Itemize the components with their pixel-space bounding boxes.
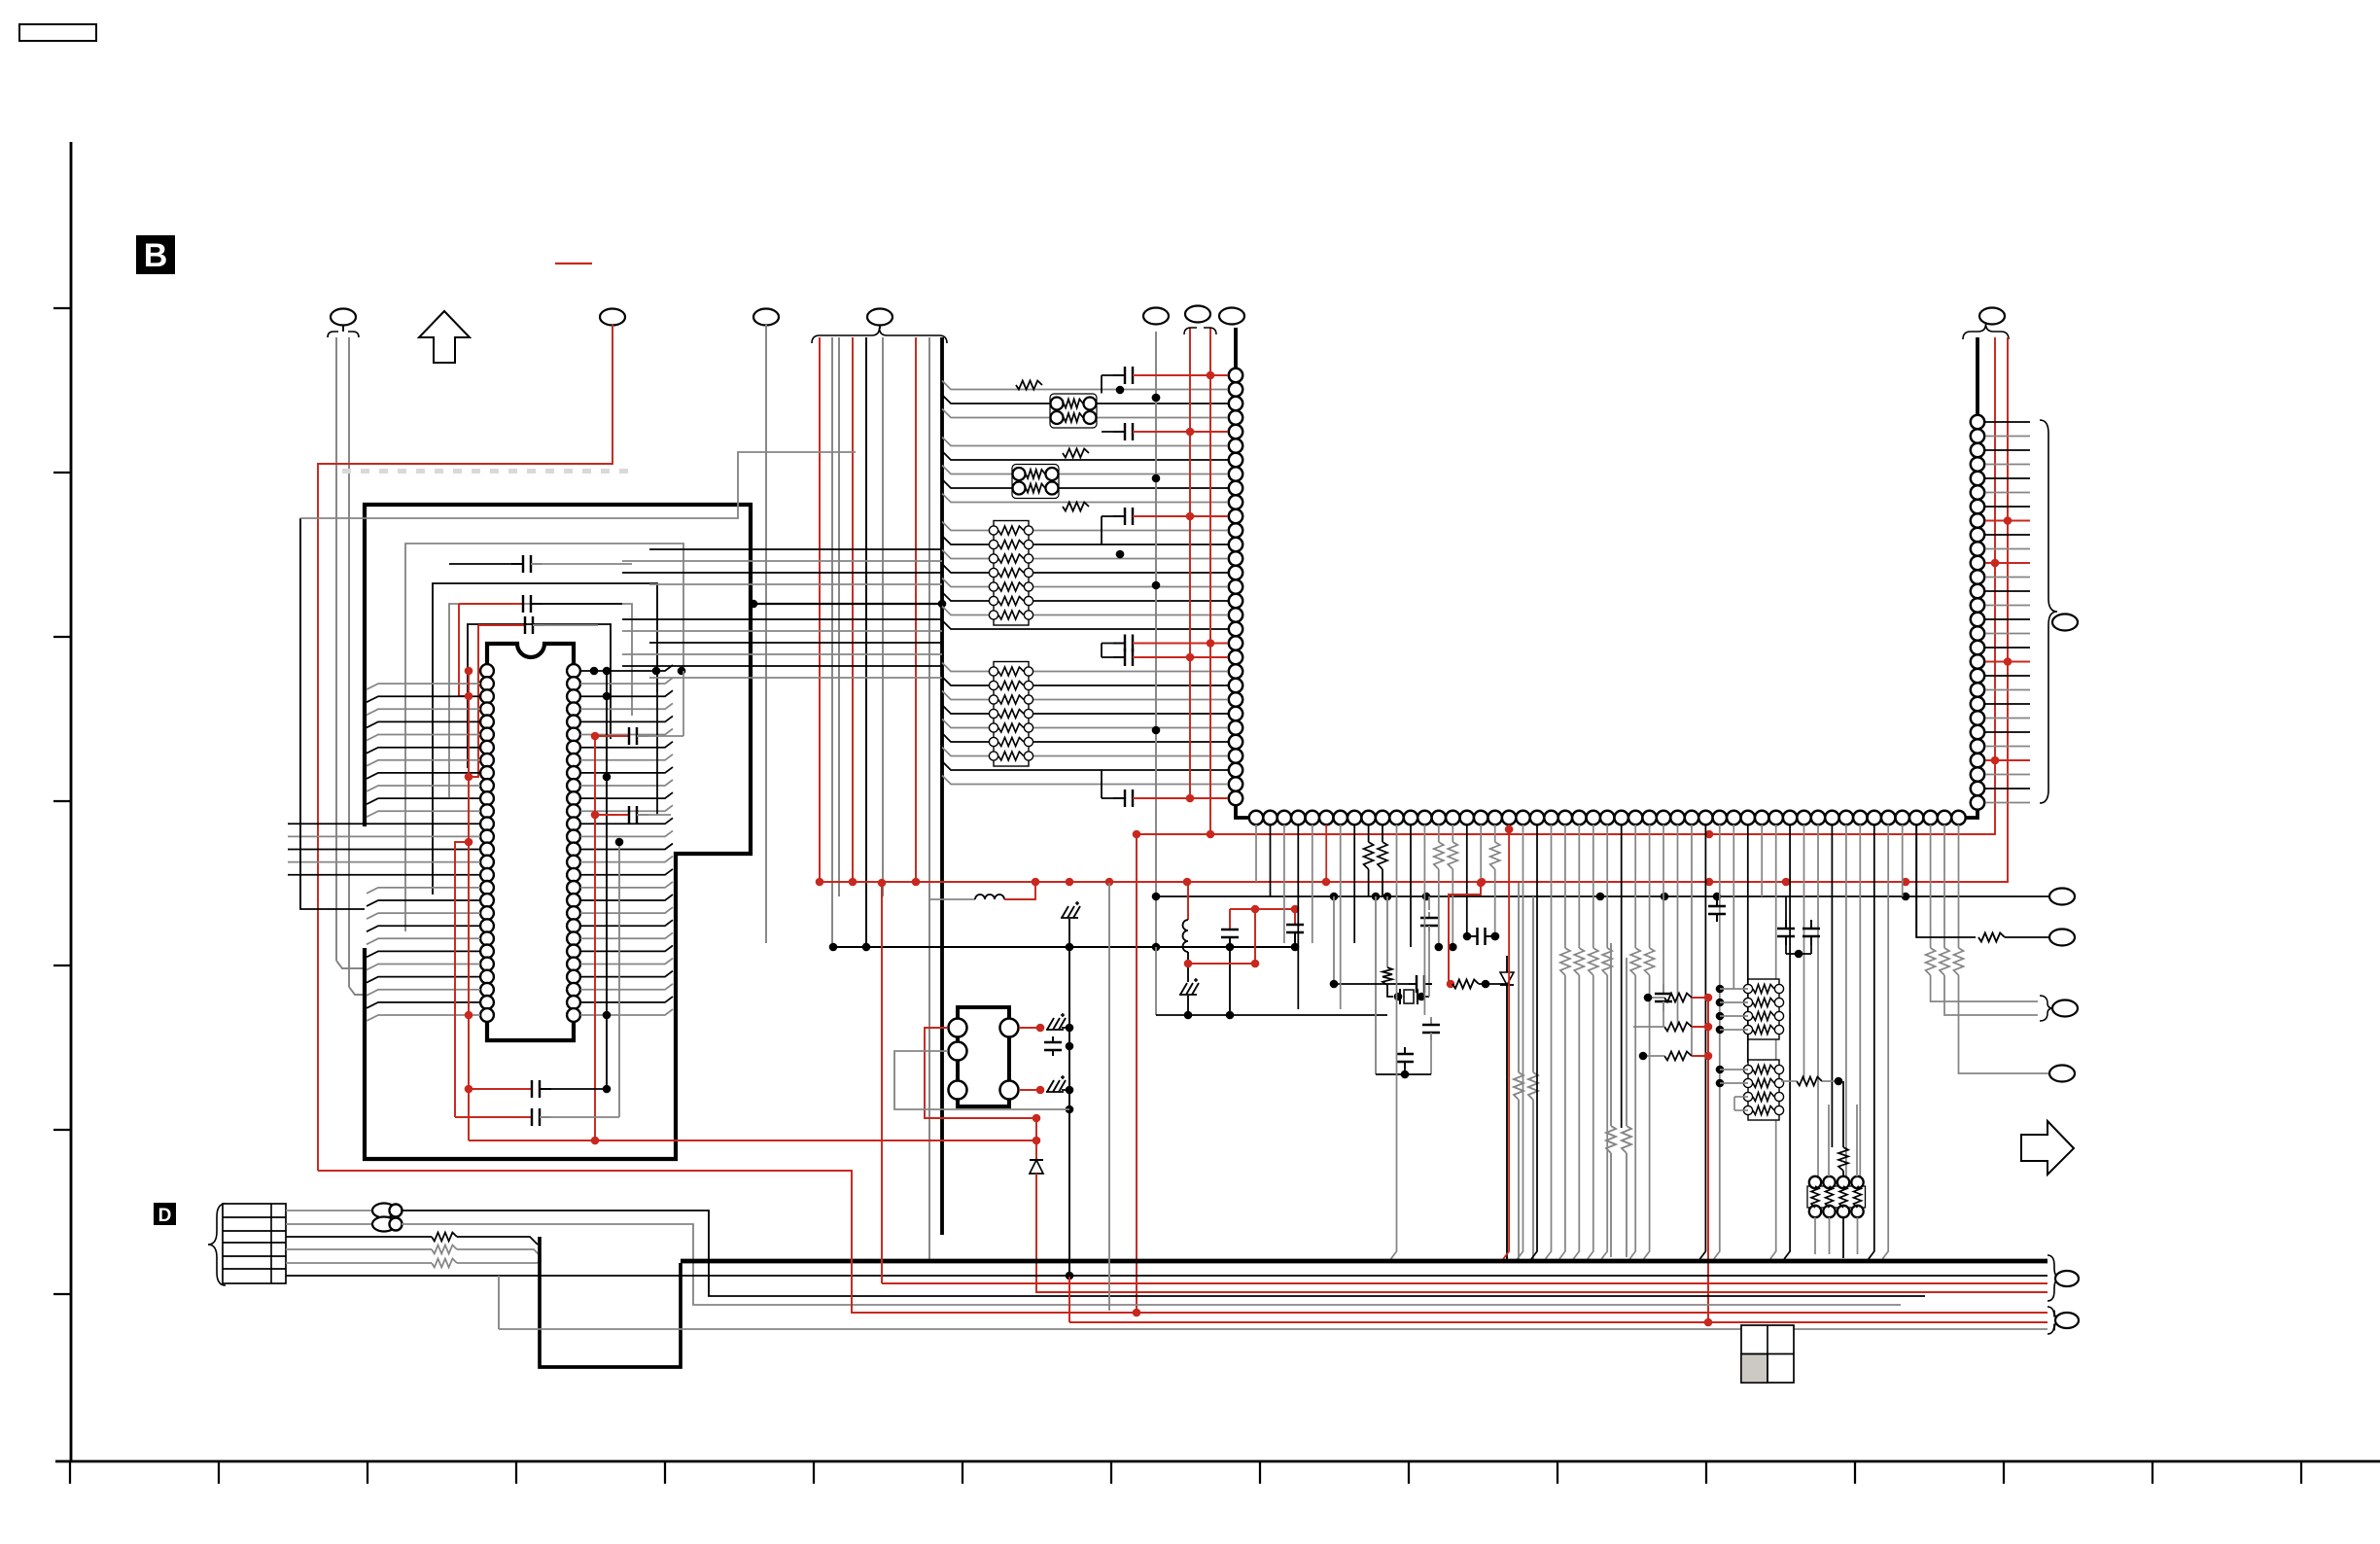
capacitor C-top3 (513, 624, 525, 626)
connector ellipse at brace (2052, 614, 2078, 631)
thick bottom bus (681, 1259, 2047, 1264)
pin circles bottom row of IC block (1249, 811, 1263, 825)
red rail right of U1 (594, 736, 596, 1140)
ground G2 (1180, 983, 1187, 995)
faint redacted text band (342, 469, 351, 474)
gray rail right of U1 (618, 842, 620, 1089)
red branch left (455, 842, 469, 1117)
U2 right top lead (1019, 1027, 1040, 1029)
connector P3 (753, 309, 779, 326)
capacitor C-m5 (1716, 898, 1718, 906)
red rail A (1189, 328, 1191, 796)
red wire loop left b (471, 625, 478, 777)
connector ellipse out2 (2049, 930, 2075, 946)
red net mid (1230, 908, 1295, 910)
black bus y922 (1156, 895, 2049, 897)
connector ellipse P7 (1979, 308, 2005, 325)
wire bundle P4 drops (819, 337, 821, 883)
wire P3 down (765, 332, 767, 943)
wire P1 pin2 down (348, 337, 350, 987)
oscillator IC U2 body (958, 1007, 1009, 1106)
inductor L1 (929, 898, 975, 900)
U2 pin circles (949, 1019, 967, 1037)
left axis tick marks (53, 307, 71, 309)
U2 gray loop (894, 1051, 1069, 1109)
black rail right of U1 (606, 671, 608, 1015)
wire P1 pin1 down (335, 337, 337, 961)
series RC net (1333, 896, 1335, 984)
DIP IC U1 body (487, 644, 574, 1040)
capacitor C-bot2 (520, 1116, 532, 1118)
section label D (154, 1203, 176, 1225)
connector ellipse out3 (2052, 1000, 2078, 1017)
wires above RN5 (1828, 1105, 1830, 1176)
pin circles right column of IC block (1971, 415, 1984, 429)
resistor R-out2 (1978, 933, 2005, 942)
dots U1 pin1 row (590, 667, 599, 676)
capacitor C-m6b (1810, 920, 1812, 929)
bus line red 1320 (882, 1282, 2047, 1284)
wire to out2 (1916, 825, 1976, 937)
wire P2 red down-left (318, 332, 612, 1171)
capacitor C-right2 (617, 814, 629, 816)
IC block outline heavy (365, 505, 751, 1159)
gray rail from P3 (1155, 332, 1157, 947)
red bus y907 (820, 881, 2009, 883)
diode D2 (1506, 956, 1508, 972)
heavy corner bottom of column (1236, 805, 1249, 818)
heavy corner bottom right column (1966, 810, 1978, 819)
resistor pair RP1 (1050, 394, 1097, 428)
wire loop L4 (468, 624, 611, 768)
D wire 3 (286, 1236, 432, 1238)
page ruler left axis (70, 142, 73, 1461)
D wire 6 bus (286, 1275, 2047, 1277)
RN5 wires (1814, 1217, 1816, 1254)
bracket above red rails (1184, 328, 1216, 334)
resistor R-mid (1797, 1077, 1822, 1086)
junction dots wire rows (1116, 386, 1125, 395)
capacitor C-top1 (511, 563, 523, 565)
connector column stem heavy (1234, 328, 1238, 368)
connector ellipse P6 (1185, 306, 1210, 323)
wires feeder fan to column (942, 381, 1228, 390)
resistor network RN3 (1748, 979, 1779, 1039)
bottom ruler axis (55, 1460, 2380, 1463)
DIP U1 left pin circles (480, 664, 494, 678)
wire from outer left 1 (300, 518, 365, 909)
wires right of U1 pins (580, 665, 673, 671)
resistor R-b (1063, 449, 1089, 458)
resistor pair RPb (1606, 1126, 1616, 1153)
pin circles left column of IC block (1229, 368, 1242, 382)
bracket bus right 2 (2047, 1307, 2061, 1334)
red rail cluster (1707, 998, 1709, 1322)
resistor R-c (1063, 503, 1089, 511)
resistor network RN1 (994, 521, 1029, 626)
wire loop L2 (433, 583, 657, 895)
red rail B (1209, 328, 1211, 834)
bus line red 1350 (318, 1171, 2047, 1313)
connector P4 with bracket (867, 309, 892, 326)
gray rail x1141 (1108, 883, 1110, 1311)
connector ellipse out4 (2049, 1066, 2075, 1082)
D wire 2 (286, 1223, 371, 1225)
resistor network RN5 (1807, 1186, 1866, 1208)
red L-net to bottom (1136, 834, 1137, 1313)
wire loop L1 (405, 544, 683, 931)
red net bottom of block (469, 1140, 1036, 1141)
connector ellipse above column (1219, 308, 1244, 325)
wires block to feeder bus (649, 548, 942, 550)
U2 right bottom lead (1019, 1089, 1040, 1091)
connector P2 (600, 309, 625, 326)
up arrow flow symbol (419, 311, 470, 363)
red rail right column A (1994, 337, 1996, 835)
svg-text:D: D (158, 1206, 172, 1226)
loop around L2 (1155, 947, 1157, 1015)
wire loop L3 (449, 604, 632, 797)
flow arrow right (2021, 1121, 2074, 1175)
ground G3 (1047, 1018, 1054, 1030)
resistor network RN2 (994, 662, 1029, 767)
curly brace right column (2040, 420, 2057, 803)
U2 red loop (925, 1028, 1036, 1118)
connector ellipse P5 (1143, 308, 1169, 325)
wire to out4 (1959, 975, 2050, 1073)
heavy bus vertical feeder (940, 337, 944, 1235)
red rail right column B (2007, 337, 2009, 882)
capacitor C-bot1 (520, 1088, 532, 1090)
connector ellipse bus2 (2055, 1313, 2079, 1328)
bracket bus right 1 (2047, 1255, 2061, 1301)
connector D block (223, 1204, 286, 1283)
capacitor C-top2 (511, 603, 523, 605)
checker legend box (1741, 1325, 1794, 1383)
resistor pair RP2 (1012, 465, 1059, 499)
connector ellipse bus1 (2055, 1271, 2079, 1286)
red step net (1449, 883, 1481, 984)
black bus y974 (833, 946, 1295, 948)
crystal X1 net (1375, 896, 1377, 1074)
svg-text:B: B (144, 237, 168, 274)
capacitor C-right1 (617, 735, 629, 737)
stub wires right column (1985, 421, 2030, 423)
heavy stem top right column (1976, 337, 1979, 415)
black rail x1100 (1068, 947, 1070, 1276)
connector P1 top-left (331, 309, 356, 326)
capacitor C-m1 (1229, 920, 1231, 930)
wires to bracket out3 (1931, 975, 2038, 1001)
bottom axis tick marks (69, 1461, 71, 1484)
capacitor C-row16 (1469, 935, 1478, 937)
resistor R-a (1016, 381, 1042, 390)
inductor L2 (1187, 883, 1189, 920)
capacitor C-u2 (1052, 1036, 1054, 1042)
resistor trio red-fed (1664, 994, 1692, 1002)
bracket out3 (2040, 996, 2053, 1021)
section label B (136, 235, 175, 274)
red wire loop left a (459, 604, 471, 696)
wire drops from bottom pin row (1255, 825, 1257, 882)
D wire 1 (286, 1210, 371, 1211)
cap row stubs (1101, 375, 1102, 394)
bus line 8 gray (499, 1328, 2047, 1330)
capacitor C-m2 (1294, 915, 1296, 925)
brace D connector (208, 1204, 226, 1285)
heavy route U (540, 1237, 681, 1367)
connector ellipse out1 (2049, 889, 2075, 905)
wires left fan to U1 pins (367, 684, 480, 689)
DIP U1 right pin circles (567, 664, 580, 678)
bus line red 1329 (1040, 1291, 2047, 1293)
title box top-left (19, 24, 96, 41)
D wire 5 (286, 1262, 432, 1264)
red pin rail U1 left (468, 669, 470, 1140)
capacitor rows into column (1113, 374, 1125, 376)
wire y621 junction (753, 603, 942, 605)
resistor pair RPa (1514, 1072, 1523, 1100)
D wire 4 (286, 1248, 432, 1250)
ground G4 (1047, 1080, 1054, 1092)
ground G1 (1062, 906, 1068, 918)
wire y533 long (300, 452, 856, 518)
red line under pin row (1137, 833, 1995, 835)
bus line red 1360 (1069, 1321, 2047, 1323)
red dash marker (555, 263, 592, 264)
diode D1 (1035, 1118, 1037, 1160)
resistor network RN4 (1748, 1060, 1779, 1120)
capacitor C-m6a (1785, 920, 1787, 929)
